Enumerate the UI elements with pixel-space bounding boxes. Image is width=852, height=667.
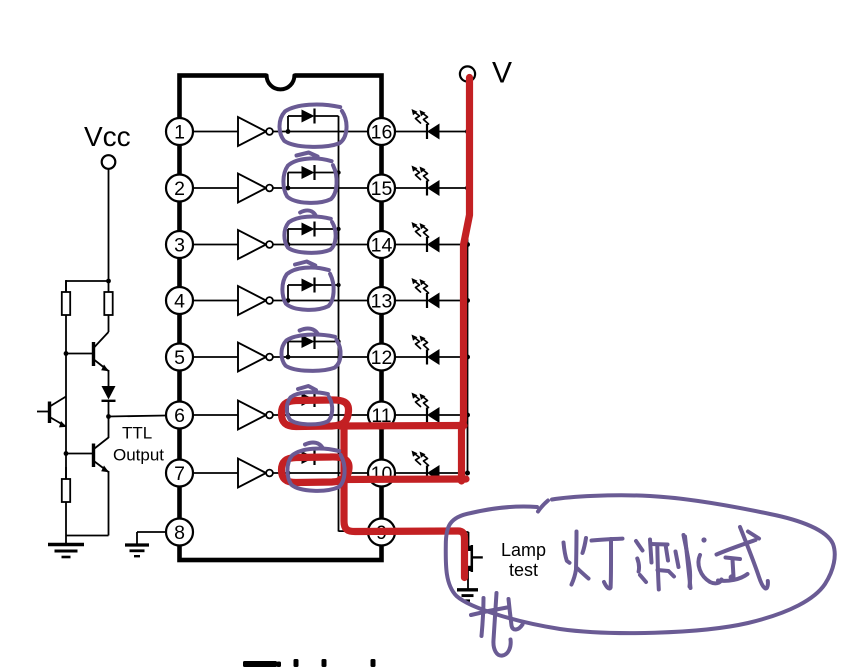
svg-text:4: 4 — [174, 291, 185, 313]
svg-text:14: 14 — [371, 235, 393, 257]
svg-text:Vcc: Vcc — [84, 121, 131, 152]
svg-text:15: 15 — [371, 178, 393, 200]
svg-text:Output: Output — [113, 446, 164, 465]
svg-text:16: 16 — [371, 122, 393, 144]
svg-text:12: 12 — [371, 347, 393, 369]
svg-text:6: 6 — [174, 405, 185, 427]
svg-text:8: 8 — [174, 522, 185, 544]
svg-text:2: 2 — [174, 178, 185, 200]
svg-text:TTL: TTL — [122, 424, 152, 443]
svg-text:5: 5 — [174, 347, 185, 369]
svg-text:test: test — [509, 560, 538, 580]
svg-text:Lamp: Lamp — [501, 540, 546, 560]
svg-text:7: 7 — [174, 463, 185, 485]
svg-text:V: V — [492, 57, 512, 90]
svg-text:3: 3 — [174, 235, 185, 257]
svg-text:13: 13 — [371, 291, 393, 313]
svg-text:1: 1 — [174, 122, 185, 144]
